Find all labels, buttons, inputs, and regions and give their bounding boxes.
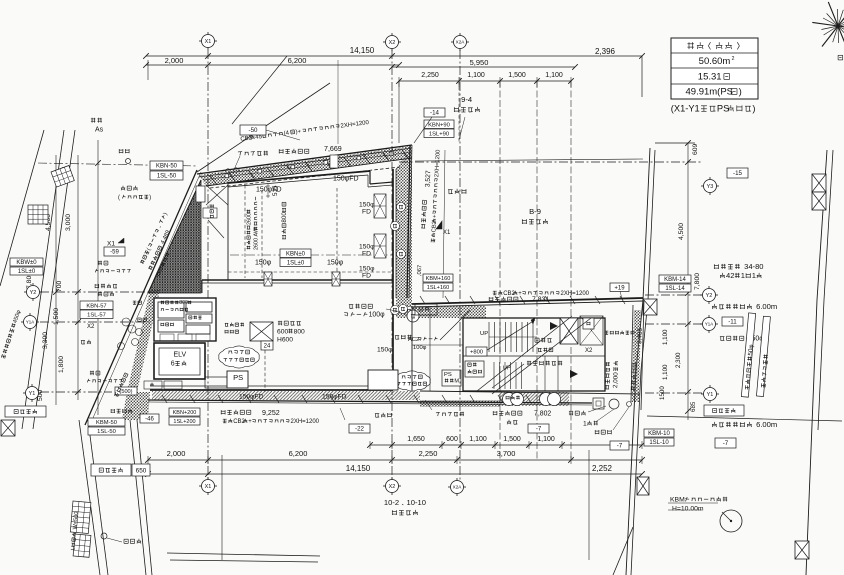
svg-text:800: 800 — [281, 212, 288, 223]
svg-text:9,252: 9,252 — [262, 409, 280, 417]
svg-text:49.91m(PS: 49.91m(PS — [686, 87, 734, 98]
svg-text:-7: -7 — [723, 440, 729, 447]
svg-text:1,100: 1,100 — [662, 329, 669, 345]
svg-text:-59: -59 — [110, 250, 119, 256]
svg-text:UP: UP — [480, 331, 488, 337]
svg-text:(X1-Y1: (X1-Y1 — [671, 104, 700, 114]
svg-text:600: 600 — [277, 329, 288, 336]
svg-text:2: 2 — [732, 56, 735, 62]
svg-text:Y3: Y3 — [707, 184, 714, 190]
svg-text:PS: PS — [444, 372, 452, 378]
svg-text:FD: FD — [362, 209, 371, 216]
svg-text:14,150: 14,150 — [346, 464, 371, 473]
svg-text:FD: FD — [362, 273, 371, 280]
svg-text:X2A: X2A — [453, 485, 463, 490]
svg-text:150φ: 150φ — [377, 347, 393, 354]
svg-text:Y2: Y2 — [30, 290, 37, 296]
svg-text:X2: X2 — [389, 484, 396, 490]
svg-text:1: 1 — [583, 421, 587, 428]
svg-text:KBW±0: KBW±0 — [16, 260, 37, 266]
svg-text:AW: AW — [253, 227, 259, 236]
svg-text:2,000: 2,000 — [165, 56, 184, 65]
svg-text:+: + — [248, 419, 252, 425]
svg-text:KBM-10: KBM-10 — [648, 431, 670, 437]
svg-text:10-2: 10-2 — [384, 498, 399, 507]
svg-text:4,500: 4,500 — [678, 223, 685, 240]
svg-text:X1: X1 — [205, 484, 212, 490]
svg-text:100φ: 100φ — [369, 312, 385, 319]
svg-text:50φ: 50φ — [747, 344, 755, 356]
svg-text:-46: -46 — [145, 417, 154, 423]
svg-text:KBN-50: KBN-50 — [156, 164, 178, 170]
svg-text:): ) — [752, 104, 755, 114]
svg-text:1,100: 1,100 — [662, 364, 669, 380]
svg-text:609: 609 — [692, 143, 699, 155]
svg-text:2XH=1200: 2XH=1200 — [561, 291, 590, 297]
svg-text:6.00m: 6.00m — [756, 420, 777, 429]
svg-text:1,100: 1,100 — [467, 72, 485, 79]
svg-text:150φFD: 150φFD — [239, 394, 264, 401]
svg-text:14,150: 14,150 — [350, 46, 375, 55]
svg-text:X2A: X2A — [456, 40, 466, 45]
svg-text:50.60m: 50.60m — [699, 56, 731, 67]
svg-text:150φ: 150φ — [359, 266, 375, 273]
svg-text:Y1: Y1 — [707, 392, 714, 398]
svg-text:-15: -15 — [733, 170, 743, 177]
svg-text:KBM+160: KBM+160 — [426, 276, 451, 282]
svg-text:2,396: 2,396 — [595, 47, 616, 56]
svg-text:150φFD: 150φFD — [333, 176, 359, 183]
svg-text:X1: X1 — [205, 39, 212, 45]
svg-text:5,950: 5,950 — [470, 58, 489, 67]
svg-text:KBM-50: KBM-50 — [96, 420, 117, 426]
svg-text:1,500: 1,500 — [53, 308, 60, 325]
svg-text:100φ: 100φ — [413, 345, 427, 351]
svg-text:2,250: 2,250 — [419, 449, 438, 458]
svg-text:FD: FD — [362, 251, 371, 258]
svg-text:1SL-50: 1SL-50 — [157, 174, 177, 180]
svg-text:KBN±0: KBN±0 — [286, 251, 306, 257]
svg-text:6.00m: 6.00m — [756, 302, 777, 311]
svg-text:2,000: 2,000 — [612, 372, 620, 388]
svg-text:7,831: 7,831 — [532, 297, 549, 304]
svg-text:Y2: Y2 — [706, 293, 713, 299]
svg-text:2,000: 2,000 — [167, 449, 186, 458]
svg-text:515: 515 — [272, 185, 279, 196]
svg-text:KBN-57: KBN-57 — [86, 303, 106, 309]
svg-text:3,000: 3,000 — [65, 214, 72, 231]
svg-text:+800: +800 — [470, 350, 483, 356]
svg-text:700: 700 — [56, 280, 63, 292]
svg-text:685: 685 — [690, 401, 697, 412]
svg-text:6: 6 — [171, 361, 175, 368]
svg-text:2,252: 2,252 — [592, 464, 613, 473]
svg-text:(: ( — [118, 195, 120, 201]
svg-text:1,650: 1,650 — [407, 436, 425, 443]
svg-text:15.31: 15.31 — [698, 72, 722, 83]
svg-text:+19: +19 — [614, 285, 625, 291]
svg-text:150φ: 150φ — [359, 244, 375, 251]
svg-text:B-9: B-9 — [529, 207, 541, 216]
svg-text:UP: UP — [503, 366, 511, 372]
svg-text:150φ: 150φ — [359, 202, 375, 209]
svg-text:42: 42 — [726, 271, 734, 280]
svg-text:): ) — [739, 87, 742, 98]
svg-text:34-80: 34-80 — [744, 262, 763, 271]
svg-text:1,500: 1,500 — [508, 72, 526, 79]
svg-text:Y1: Y1 — [29, 391, 36, 397]
svg-text:PS: PS — [233, 373, 243, 382]
svg-text:150φ: 150φ — [255, 260, 272, 267]
svg-text:800: 800 — [294, 329, 305, 336]
svg-text:2600: 2600 — [246, 213, 252, 225]
svg-text:7,669: 7,669 — [324, 145, 342, 153]
svg-text:800: 800 — [179, 300, 188, 306]
svg-text:-7: -7 — [617, 443, 623, 450]
svg-text:X2: X2 — [389, 40, 396, 46]
svg-text:H600: H600 — [277, 337, 293, 344]
svg-text:1,500: 1,500 — [503, 436, 521, 443]
svg-text:1: 1 — [752, 271, 756, 280]
svg-text:,067: ,067 — [417, 265, 424, 277]
svg-text:CB2: CB2 — [431, 221, 438, 233]
svg-text:3,700: 3,700 — [497, 449, 516, 458]
svg-text:ELV: ELV — [174, 352, 187, 359]
svg-text:X1: X1 — [443, 230, 451, 236]
svg-text:2,250: 2,250 — [421, 72, 439, 79]
svg-text:KBN+200: KBN+200 — [173, 410, 197, 416]
svg-text:KBM:: KBM: — [670, 497, 687, 504]
svg-text:Y1A: Y1A — [705, 322, 713, 327]
svg-text:9-4: 9-4 — [461, 95, 472, 104]
svg-text:L: L — [71, 547, 77, 551]
svg-text:KBM-14: KBM-14 — [664, 277, 686, 283]
svg-text:10-10: 10-10 — [407, 498, 426, 507]
svg-text:1500: 1500 — [659, 386, 666, 400]
svg-text:150φFD: 150φFD — [322, 394, 347, 401]
svg-text:1,800: 1,800 — [58, 356, 65, 373]
svg-text:1SL-50: 1SL-50 — [97, 429, 116, 435]
svg-text:2XH=1200: 2XH=1200 — [291, 419, 320, 425]
svg-text:3,300: 3,300 — [42, 332, 49, 349]
svg-text:PS: PS — [717, 104, 729, 114]
svg-text:1,100: 1,100 — [545, 72, 563, 79]
svg-text:150φ: 150φ — [327, 260, 344, 267]
svg-text:-14: -14 — [430, 110, 440, 117]
svg-text:6,200: 6,200 — [289, 449, 308, 458]
svg-text:1: 1 — [741, 271, 745, 280]
svg-text:AC2: AC2 — [408, 337, 419, 343]
svg-text:1SL+160: 1SL+160 — [427, 285, 450, 291]
svg-text:1SL-57: 1SL-57 — [87, 312, 106, 318]
svg-text:3,527: 3,527 — [424, 170, 432, 187]
svg-text:-50: -50 — [249, 127, 259, 134]
svg-text:As: As — [95, 127, 104, 134]
svg-text:-7: -7 — [536, 427, 542, 433]
svg-text:600: 600 — [446, 436, 458, 443]
svg-text:X2: X2 — [585, 348, 593, 354]
svg-text:650: 650 — [136, 467, 147, 474]
svg-text:H=10.00m: H=10.00m — [672, 506, 704, 513]
svg-text:2,300: 2,300 — [675, 352, 682, 368]
svg-text:+: + — [518, 291, 522, 297]
svg-text:1SL±0: 1SL±0 — [18, 269, 36, 275]
svg-text:1SL±0: 1SL±0 — [287, 260, 305, 266]
svg-text:KBN+90: KBN+90 — [428, 122, 450, 128]
svg-text:1,100: 1,100 — [537, 436, 555, 443]
svg-text:1,100: 1,100 — [469, 436, 487, 443]
svg-text:): ) — [149, 195, 151, 201]
svg-text:-22: -22 — [355, 426, 365, 433]
svg-text:CB2: CB2 — [503, 291, 515, 297]
svg-text:24: 24 — [264, 344, 271, 350]
svg-text:1SL+90: 1SL+90 — [429, 131, 449, 137]
svg-text:CB2: CB2 — [233, 419, 245, 425]
svg-text:1SL-14: 1SL-14 — [665, 286, 685, 292]
svg-text:1SL-10: 1SL-10 — [649, 440, 669, 446]
svg-text:M: M — [454, 379, 459, 385]
svg-text:Y1A: Y1A — [26, 320, 34, 325]
svg-text:7,800: 7,800 — [694, 273, 701, 290]
svg-text:X1: X1 — [107, 240, 115, 247]
svg-text:X2: X2 — [87, 324, 95, 330]
svg-text:6,200: 6,200 — [288, 56, 307, 65]
svg-text:7,802: 7,802 — [534, 411, 551, 418]
svg-text:1SL+200: 1SL+200 — [173, 419, 195, 425]
svg-text:-11: -11 — [728, 319, 737, 326]
svg-text:(500): (500) — [119, 389, 132, 395]
svg-text:2600: 2600 — [253, 238, 259, 250]
